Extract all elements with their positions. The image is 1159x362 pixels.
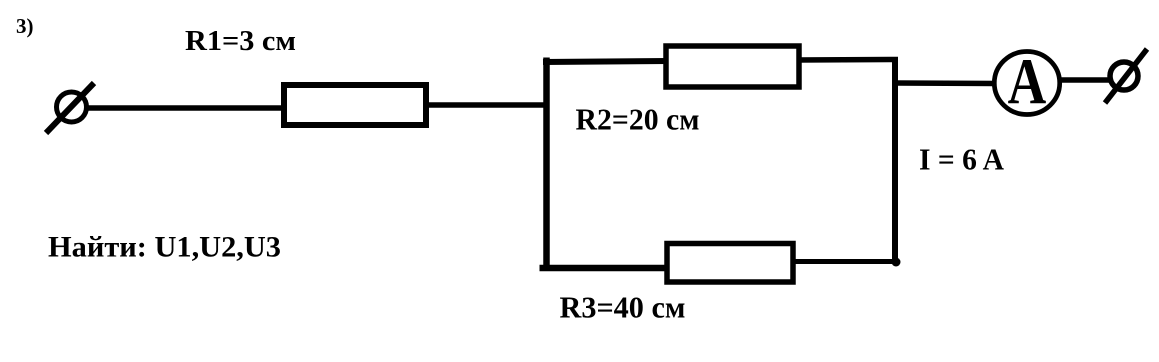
wire: ammeter to terminal J2	[1059, 77, 1112, 83]
wire: node B to ammeter	[895, 80, 996, 86]
svg-text:Найти: U1,U2,U3: Найти: U1,U2,U3	[48, 232, 281, 264]
terminal J2 (right output, circle with slash)	[1105, 49, 1147, 103]
svg-text:R3=40 см: R3=40 см	[560, 291, 686, 325]
wire: R3 to bottom-right corner	[793, 259, 898, 264]
resistor R3	[667, 244, 793, 283]
wire J1 to R1	[86, 105, 286, 111]
wire: bottom-left segment to R3	[540, 265, 671, 272]
svg-text:R2=20 см: R2=20 см	[576, 103, 700, 137]
wire: left vertical branch (node A)	[543, 58, 550, 272]
terminal J1 (left input, circle with slash)	[46, 83, 94, 133]
resistor R1	[284, 85, 426, 125]
svg-text:3): 3)	[16, 14, 34, 38]
svg-text:R1=3 см: R1=3 см	[185, 26, 296, 57]
resistor R2	[666, 46, 799, 87]
svg-text:A: A	[1008, 44, 1047, 118]
wire: right vertical branch	[892, 57, 898, 262]
ammeter U1 (circle with letter A)	[994, 44, 1059, 118]
wire: R2 to top-right corner	[797, 57, 898, 63]
wire R1 to node A	[426, 102, 549, 108]
junction dot (bottom right corner)	[892, 258, 901, 267]
svg-text:I = 6 A: I = 6 A	[919, 143, 1004, 177]
wire: top-left segment to R2	[543, 61, 668, 62]
